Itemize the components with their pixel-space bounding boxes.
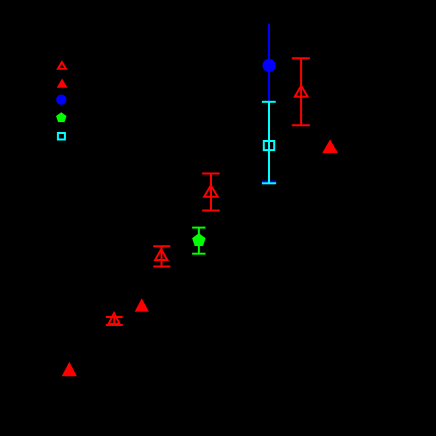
- legend marker: filled green pentagon: [56, 112, 66, 122]
- error bar: green top cap: [192, 227, 205, 229]
- data point: filled green pentagon: [192, 233, 206, 246]
- error bar: red top cap (lower left): [106, 316, 123, 318]
- data point: filled red triangle (right): [322, 139, 338, 153]
- error bar: blue bottom cap: [262, 181, 276, 183]
- error bar: red bottom cap (center-left): [153, 266, 170, 268]
- legend marker: open red triangle: [58, 62, 66, 68]
- error bar: red vertical line (middle): [210, 174, 212, 211]
- error bar: blue vertical line: [268, 24, 270, 182]
- error bar: red top cap (center-left): [153, 245, 170, 247]
- error bar: green bottom cap: [192, 253, 205, 255]
- error bar: cyan top cap: [262, 101, 276, 103]
- error bar: red top cap: [292, 57, 310, 59]
- legend marker: filled red triangle: [57, 79, 68, 88]
- data point: open red triangle (upper right): [295, 86, 308, 97]
- error bar: red bottom cap: [292, 124, 310, 126]
- data point: open red triangle (center-left): [155, 249, 167, 260]
- error bar: red bottom cap (middle): [202, 210, 220, 212]
- error bar: green vertical line: [198, 228, 200, 254]
- error bar: cyan bottom cap: [262, 182, 276, 184]
- error bar: red vertical line (center-left): [161, 246, 163, 266]
- error bar: red vertical line (lower left): [113, 317, 115, 325]
- data point: open red triangle (lower left): [109, 313, 120, 324]
- error bar: red top cap (middle): [202, 173, 220, 175]
- legend marker: filled blue circle: [56, 95, 66, 105]
- error bar: cyan vertical line: [268, 102, 270, 184]
- legend marker: open cyan square: [58, 133, 65, 140]
- error bar: red bottom cap (lower left): [106, 324, 123, 326]
- data point: filled red triangle (lower middle): [135, 298, 149, 311]
- error bar: red vertical line (upper right): [300, 58, 302, 125]
- data point: open cyan square: [264, 141, 274, 150]
- data point: filled blue circle: [263, 59, 276, 72]
- data point: open red triangle (middle): [204, 185, 218, 196]
- data point: filled red triangle (bottom left): [62, 362, 77, 376]
